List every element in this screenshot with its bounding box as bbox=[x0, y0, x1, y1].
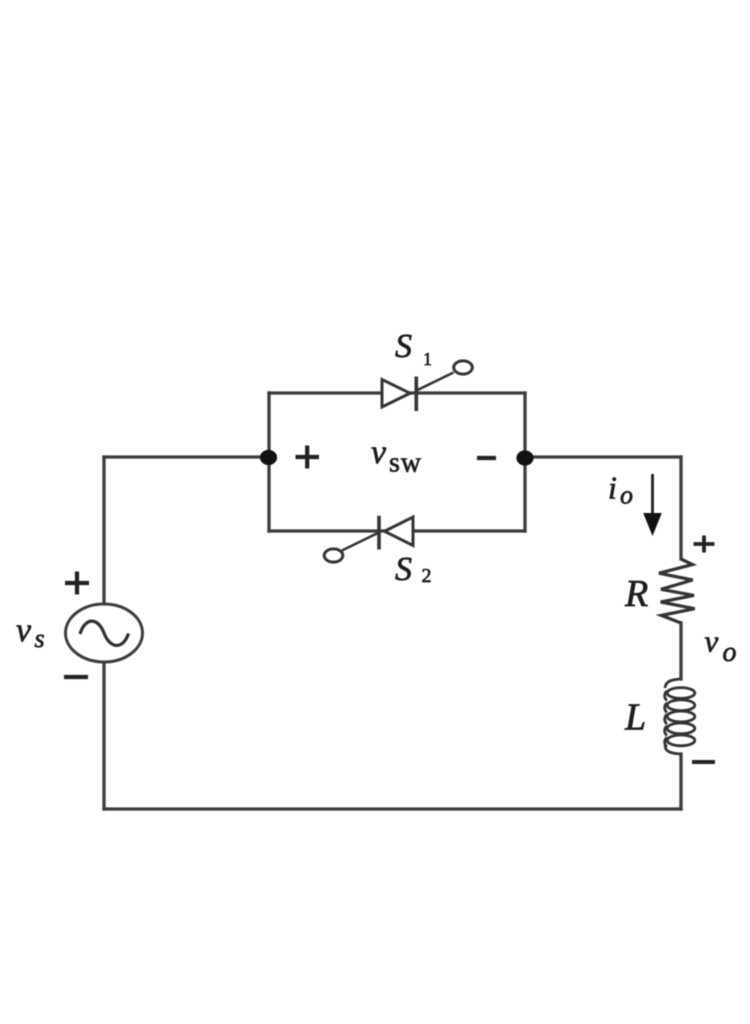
svg-text:2: 2 bbox=[422, 565, 432, 587]
thyristor S2 (anode right, pointing left) bbox=[324, 516, 413, 562]
label vs bbox=[16, 612, 45, 653]
arrow io (downward current arrow) bbox=[643, 474, 662, 536]
resistor R (zigzag) bbox=[659, 559, 695, 623]
wire right node to load horizontal bbox=[525, 455, 681, 458]
plus sign (source top) bbox=[65, 572, 89, 595]
minus sign (vsw right) bbox=[477, 456, 496, 460]
wire box top horizontal bbox=[269, 391, 525, 394]
wire box bottom horizontal bbox=[269, 529, 525, 532]
svg-text:1: 1 bbox=[423, 349, 432, 369]
svg-text:o: o bbox=[620, 481, 633, 510]
label io bbox=[608, 470, 633, 510]
label S1 bbox=[395, 328, 432, 369]
svg-text:S: S bbox=[395, 551, 412, 588]
thyristor S1 (anode left, pointing right) bbox=[382, 361, 472, 411]
svg-text:i: i bbox=[608, 470, 617, 506]
svg-text:v: v bbox=[16, 612, 32, 649]
source vs (AC sine source) bbox=[66, 604, 143, 662]
label vo bbox=[705, 624, 737, 669]
wire right vertical above R bbox=[679, 457, 682, 559]
wire right vertical between R and L bbox=[679, 623, 682, 679]
svg-text:S: S bbox=[395, 328, 412, 365]
svg-text:v: v bbox=[371, 434, 387, 471]
minus sign (load bottom) bbox=[692, 760, 715, 764]
plus sign (load top) bbox=[694, 536, 715, 553]
minus sign (source bottom) bbox=[64, 675, 88, 679]
node right (junction dot) bbox=[516, 450, 533, 465]
svg-text:sw: sw bbox=[389, 448, 422, 479]
svg-text:o: o bbox=[723, 637, 737, 668]
svg-text:R: R bbox=[624, 573, 648, 615]
wire box left vertical bbox=[267, 393, 270, 531]
inductor L (coil) bbox=[665, 679, 695, 754]
wire bottom horizontal bbox=[104, 807, 681, 810]
wire top-left horizontal (source to left node) bbox=[104, 455, 269, 458]
svg-text:s: s bbox=[35, 624, 45, 653]
plus sign (vsw left) bbox=[296, 446, 320, 469]
label S2 bbox=[395, 551, 432, 588]
wire right vertical below L bbox=[679, 754, 682, 809]
svg-text:v: v bbox=[705, 624, 719, 659]
svg-text:L: L bbox=[624, 697, 646, 739]
wire left vertical (source branch) bbox=[102, 457, 105, 809]
label vsw bbox=[371, 434, 422, 479]
node left (junction dot) bbox=[260, 450, 277, 465]
wire box right vertical bbox=[523, 393, 526, 531]
